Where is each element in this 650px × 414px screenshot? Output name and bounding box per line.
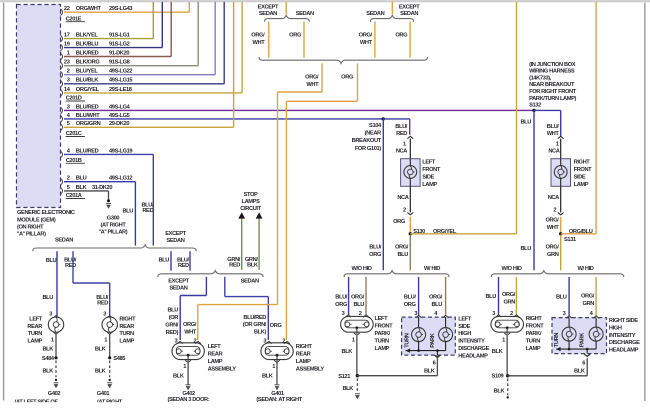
- svg-text:LAMP: LAMP: [422, 182, 437, 188]
- svg-text:LAMP: LAMP: [208, 359, 223, 365]
- svg-text:CIRCUIT: CIRCUIT: [240, 206, 261, 212]
- svg-text:BLK: BLK: [262, 374, 274, 380]
- svg-text:1: 1: [67, 50, 70, 56]
- svg-text:LEFT: LEFT: [422, 159, 436, 165]
- svg-text:49S-LG4: 49S-LG4: [109, 104, 131, 110]
- svg-text:1: 1: [272, 364, 275, 370]
- svg-text:NCA: NCA: [548, 149, 559, 155]
- svg-text:S104: S104: [369, 123, 382, 129]
- svg-text:1: 1: [51, 337, 54, 343]
- svg-text:BLU/BLK: BLU/BLK: [76, 78, 100, 84]
- svg-text:LEFT: LEFT: [29, 317, 43, 323]
- svg-text:RIGHT SIDE: RIGHT SIDE: [609, 318, 638, 324]
- svg-text:ORG: ORG: [395, 33, 408, 39]
- svg-text:EXCEPT: EXCEPT: [399, 5, 420, 11]
- svg-text:SIDE: SIDE: [458, 324, 470, 330]
- svg-text:BLU/: BLU/: [395, 124, 408, 130]
- svg-text:RED): RED): [166, 330, 179, 336]
- svg-text:BLK: BLK: [76, 185, 88, 191]
- svg-text:49S-LG15: 49S-LG15: [109, 78, 132, 84]
- svg-text:1: 1: [403, 141, 406, 147]
- svg-text:ORG/YEL: ORG/YEL: [76, 87, 100, 93]
- svg-text:29S-LE18: 29S-LE18: [109, 87, 132, 93]
- svg-text:BLU/: BLU/: [547, 124, 560, 130]
- svg-text:19: 19: [64, 42, 70, 48]
- svg-text:GRN/: GRN/: [165, 323, 178, 329]
- svg-text:ASSEMBLY: ASSEMBLY: [208, 366, 237, 372]
- svg-text:SEDAN: SEDAN: [296, 11, 314, 17]
- svg-text:RED: RED: [97, 300, 108, 306]
- svg-text:49S-LG5: 49S-LG5: [109, 113, 130, 119]
- svg-text:BLU: BLU: [485, 294, 496, 300]
- svg-text:LAMP: LAMP: [119, 339, 134, 345]
- svg-text:BLK/RED: BLK/RED: [76, 50, 99, 56]
- svg-text:2: 2: [282, 339, 285, 345]
- svg-text:NCA: NCA: [548, 195, 559, 201]
- svg-text:BLK: BLK: [95, 369, 107, 375]
- svg-text:ORG/: ORG/: [429, 294, 443, 300]
- svg-text:BLU: BLU: [42, 295, 53, 301]
- svg-text:ASSEMBLY: ASSEMBLY: [296, 366, 325, 372]
- svg-text:2: 2: [403, 208, 406, 214]
- svg-text:TURN: TURN: [554, 333, 560, 348]
- svg-text:17: 17: [64, 33, 70, 39]
- svg-text:ORG/: ORG/: [581, 293, 595, 299]
- svg-text:ORG/: ORG/: [545, 245, 559, 251]
- svg-text:WHT: WHT: [306, 82, 319, 88]
- svg-text:ORG: ORG: [335, 302, 348, 308]
- svg-text:BLU/RED: BLU/RED: [243, 315, 266, 321]
- svg-text:29S-LG43: 29S-LG43: [109, 6, 132, 12]
- svg-text:S484: S484: [42, 356, 55, 362]
- svg-text:REAR: REAR: [296, 351, 311, 357]
- svg-text:NCA: NCA: [396, 149, 407, 155]
- svg-text:91-DK20: 91-DK20: [109, 50, 129, 56]
- svg-text:RED: RED: [65, 263, 76, 269]
- svg-text:BLK: BLK: [574, 368, 586, 374]
- svg-text:PARK/: PARK/: [526, 331, 542, 337]
- svg-text:TURN: TURN: [28, 331, 43, 337]
- svg-text:BLU/: BLU/: [404, 294, 417, 300]
- svg-text:BLK: BLK: [424, 368, 436, 374]
- svg-text:2: 2: [553, 208, 556, 214]
- svg-text:SEDAN: SEDAN: [241, 278, 259, 284]
- svg-text:ORG/: ORG/: [359, 33, 373, 39]
- svg-text:GRN: GRN: [583, 301, 595, 307]
- svg-text:49S-LG19: 49S-LG19: [109, 148, 132, 154]
- svg-text:3: 3: [263, 339, 266, 345]
- svg-text:BLK: BLK: [42, 369, 54, 375]
- svg-text:LAMP: LAMP: [526, 346, 541, 352]
- svg-text:BLU: BLU: [167, 308, 178, 314]
- svg-text:BLK: BLK: [247, 263, 259, 269]
- svg-text:23: 23: [64, 60, 70, 66]
- svg-text:HIGH: HIGH: [609, 325, 622, 331]
- svg-text:REAR: REAR: [208, 351, 223, 357]
- svg-text:BLK: BLK: [341, 349, 353, 355]
- svg-text:REAR: REAR: [119, 324, 134, 330]
- svg-text:BLK/YEL: BLK/YEL: [76, 33, 99, 39]
- svg-text:SEDAN: SEDAN: [55, 237, 73, 243]
- svg-text:ORG: ORG: [393, 219, 406, 225]
- svg-text:49S-LG22: 49S-LG22: [109, 69, 132, 75]
- svg-text:EXCEPT: EXCEPT: [165, 231, 186, 237]
- svg-text:WHT: WHT: [360, 40, 373, 46]
- svg-text:BLU: BLU: [520, 246, 531, 252]
- svg-text:FRONT: FRONT: [574, 167, 593, 173]
- svg-text:WHT: WHT: [547, 225, 560, 231]
- svg-text:HEADLAMP: HEADLAMP: [609, 348, 639, 354]
- svg-text:SEDAN: SEDAN: [259, 11, 277, 17]
- svg-text:91S-LG8: 91S-LG8: [109, 60, 130, 66]
- svg-text:BLK: BLK: [342, 386, 354, 392]
- svg-text:MODULE (GEM): MODULE (GEM): [17, 217, 56, 223]
- svg-text:LEFT: LEFT: [458, 316, 472, 322]
- svg-text:91S-LG2: 91S-LG2: [109, 42, 130, 48]
- svg-text:W/O HID: W/O HID: [351, 266, 371, 272]
- svg-text:BLK/BLU: BLK/BLU: [76, 42, 99, 48]
- svg-text:LAMP: LAMP: [27, 339, 42, 345]
- svg-text:22: 22: [64, 6, 70, 12]
- svg-text:BLU/YEL: BLU/YEL: [76, 69, 99, 75]
- svg-text:BLU: BLU: [431, 302, 442, 308]
- svg-text:ORG/GRN: ORG/GRN: [76, 121, 101, 127]
- svg-text:BLU: BLU: [353, 302, 364, 308]
- svg-text:BLK: BLK: [95, 347, 107, 353]
- svg-text:TURN: TURN: [526, 339, 541, 345]
- svg-text:BLU/WHT: BLU/WHT: [76, 113, 100, 119]
- svg-text:ORG: ORG: [404, 302, 417, 308]
- svg-text:3: 3: [103, 311, 106, 317]
- svg-text:1: 1: [556, 141, 559, 147]
- svg-text:''A'' PILLAR): ''A'' PILLAR): [17, 232, 46, 238]
- svg-text:DISCHARGE: DISCHARGE: [458, 346, 489, 352]
- svg-text:ORG/: ORG/: [502, 292, 516, 298]
- svg-text:PARK/: PARK/: [375, 331, 391, 337]
- svg-text:3: 3: [175, 339, 178, 345]
- svg-text:WHT: WHT: [184, 329, 197, 335]
- svg-text:SEDAN: SEDAN: [166, 238, 184, 244]
- svg-text:TURN: TURN: [404, 333, 410, 348]
- svg-text:(SEDAN: AT RIGHT: (SEDAN: AT RIGHT: [256, 397, 302, 403]
- svg-text:HIGH: HIGH: [458, 331, 471, 337]
- svg-text:(AT RIGHT: (AT RIGHT: [101, 222, 127, 228]
- svg-text:ORG/: ORG/: [305, 74, 319, 80]
- svg-text:TURN: TURN: [375, 339, 390, 345]
- svg-text:(ON RIGHT: (ON RIGHT: [17, 224, 44, 230]
- svg-text:3: 3: [563, 311, 566, 317]
- svg-text:PARK/TURN LAMP): PARK/TURN LAMP): [529, 96, 576, 102]
- svg-text:BLU: BLU: [46, 258, 57, 264]
- svg-text:NEAR BREAKOUT: NEAR BREAKOUT: [529, 82, 575, 88]
- svg-text:6: 6: [582, 361, 585, 367]
- svg-text:INTENSITY: INTENSITY: [458, 339, 485, 345]
- svg-text:GRN: GRN: [504, 299, 516, 305]
- svg-text:BLK/ORG: BLK/ORG: [76, 60, 101, 66]
- svg-text:ORG: ORG: [289, 33, 302, 39]
- svg-text:1: 1: [502, 337, 505, 343]
- svg-text:FOR RIGHT FRONT: FOR RIGHT FRONT: [529, 89, 577, 95]
- svg-text:(OR: (OR: [169, 315, 179, 321]
- svg-text:TURN: TURN: [119, 331, 134, 337]
- svg-text:NCA: NCA: [397, 195, 408, 201]
- svg-text:EXCEPT: EXCEPT: [168, 278, 189, 284]
- svg-text:6: 6: [433, 360, 436, 366]
- svg-text:RED: RED: [178, 263, 189, 269]
- svg-text:LAMP: LAMP: [375, 346, 390, 352]
- svg-text:SIDE: SIDE: [422, 174, 434, 180]
- svg-text:LAMP: LAMP: [296, 359, 311, 365]
- svg-text:STOP: STOP: [244, 192, 258, 198]
- svg-text:(SEDAN 3 DOOR:: (SEDAN 3 DOOR:: [168, 397, 210, 403]
- svg-text:SEDAN: SEDAN: [169, 285, 187, 291]
- svg-text:PARK: PARK: [579, 332, 585, 347]
- svg-text:BLU: BLU: [520, 120, 531, 126]
- svg-text:W/O HID: W/O HID: [501, 266, 521, 272]
- svg-text:1: 1: [104, 337, 107, 343]
- svg-text:ORG/: ORG/: [395, 245, 409, 251]
- svg-text:LEFT: LEFT: [375, 316, 389, 322]
- svg-text:G401: G401: [97, 391, 110, 397]
- svg-text:1: 1: [183, 364, 186, 370]
- svg-text:49S-LG12: 49S-LG12: [109, 176, 132, 182]
- svg-text:(NEAR: (NEAR: [365, 131, 381, 137]
- svg-text:HEADLAMP: HEADLAMP: [458, 353, 488, 359]
- svg-text:DISCHARGE: DISCHARGE: [609, 340, 640, 346]
- svg-text:3: 3: [49, 311, 52, 317]
- svg-text:2: 2: [194, 339, 197, 345]
- svg-text:BLU/RED: BLU/RED: [76, 148, 99, 154]
- svg-text:ORG/: ORG/: [183, 322, 197, 328]
- svg-text:REAR: REAR: [27, 324, 42, 330]
- svg-text:PARK: PARK: [430, 332, 436, 347]
- svg-text:ORG: ORG: [369, 252, 382, 258]
- svg-text:GENERIC ELECTRONIC: GENERIC ELECTRONIC: [17, 210, 75, 216]
- svg-text:LAMPS: LAMPS: [241, 199, 260, 205]
- svg-text:WIRING HARNESS: WIRING HARNESS: [529, 69, 575, 75]
- svg-text:2: 2: [67, 176, 70, 182]
- svg-text:FRONT: FRONT: [526, 324, 545, 330]
- svg-text:W/ HID: W/ HID: [424, 266, 440, 272]
- svg-text:RIGHT: RIGHT: [296, 344, 313, 350]
- svg-text:RED: RED: [396, 131, 407, 137]
- svg-text:RIGHT: RIGHT: [574, 159, 591, 165]
- svg-text:BLK: BLK: [173, 374, 185, 380]
- svg-text:G402: G402: [182, 391, 195, 397]
- svg-text:BLK: BLK: [42, 347, 54, 353]
- svg-text:BLK: BLK: [494, 388, 506, 394]
- svg-text:WHT: WHT: [547, 131, 560, 137]
- svg-text:RED: RED: [229, 263, 240, 269]
- svg-text:S109: S109: [492, 374, 504, 380]
- svg-text:S132: S132: [529, 103, 541, 109]
- svg-text:SIDE: SIDE: [574, 174, 586, 180]
- svg-text:(OR GRN/: (OR GRN/: [243, 322, 267, 328]
- svg-text:RIGHT: RIGHT: [526, 316, 543, 322]
- svg-text:ORG/: ORG/: [251, 33, 265, 39]
- svg-text:29-DK20: 29-DK20: [109, 121, 129, 127]
- svg-text:FRONT: FRONT: [422, 167, 441, 173]
- svg-text:G401: G401: [271, 391, 284, 397]
- svg-text:LAMP: LAMP: [574, 182, 589, 188]
- svg-text:3: 3: [492, 311, 495, 317]
- svg-text:BREAKOUT: BREAKOUT: [352, 138, 382, 144]
- svg-text:BLU: BLU: [122, 209, 133, 215]
- svg-text:31-DK20: 31-DK20: [92, 185, 112, 191]
- svg-text:EXCEPT: EXCEPT: [258, 5, 279, 11]
- svg-text:S121: S121: [338, 374, 350, 380]
- svg-text:3: 3: [67, 78, 70, 84]
- svg-text:BLU: BLU: [158, 257, 169, 263]
- svg-text:5: 5: [67, 185, 70, 191]
- svg-text:BLK: BLK: [492, 349, 504, 355]
- svg-text:ORG/: ORG/: [351, 294, 365, 300]
- svg-text:BLK): BLK): [254, 330, 267, 336]
- svg-text:ORG/WHT: ORG/WHT: [76, 6, 102, 12]
- svg-text:ORG: ORG: [270, 323, 283, 329]
- svg-text:BLU: BLU: [397, 252, 408, 258]
- svg-text:3: 3: [414, 311, 417, 317]
- svg-text:ORG/: ORG/: [545, 218, 559, 224]
- svg-text:FOR G101): FOR G101): [355, 146, 381, 152]
- svg-text:GRN: GRN: [547, 252, 559, 258]
- svg-text:3: 3: [342, 311, 345, 317]
- svg-text:SEDAN: SEDAN: [400, 11, 418, 17]
- svg-text:BLU: BLU: [556, 294, 567, 300]
- svg-text:S485: S485: [113, 356, 125, 362]
- svg-text:G402: G402: [48, 391, 61, 397]
- svg-text:1: 1: [352, 337, 355, 343]
- svg-text:W/ HID: W/ HID: [577, 266, 593, 272]
- svg-text:(14K733),: (14K733),: [529, 75, 552, 81]
- svg-text:2: 2: [67, 69, 70, 75]
- svg-text:WHT: WHT: [252, 40, 265, 46]
- svg-text:BLU/: BLU/: [335, 294, 348, 300]
- svg-text:RIGHT: RIGHT: [119, 317, 136, 323]
- svg-text:''A'' PILLAR): ''A'' PILLAR): [99, 229, 128, 235]
- svg-text:G300: G300: [107, 215, 120, 221]
- svg-text:S131: S131: [564, 237, 576, 243]
- svg-text:LEFT: LEFT: [208, 344, 222, 350]
- svg-text:3: 3: [67, 104, 70, 110]
- svg-text:INTENSITY: INTENSITY: [609, 333, 636, 339]
- svg-text:(IN JUNCTION BOX: (IN JUNCTION BOX: [529, 62, 576, 68]
- svg-text:5: 5: [67, 121, 70, 127]
- svg-text:BLU: BLU: [76, 176, 87, 182]
- svg-text:RED: RED: [142, 208, 153, 214]
- svg-text:SEDAN: SEDAN: [366, 11, 384, 17]
- svg-text:FRONT: FRONT: [375, 324, 394, 330]
- svg-text:BLU/: BLU/: [369, 245, 382, 251]
- svg-text:BLU/RED: BLU/RED: [76, 104, 99, 110]
- svg-text:ORG: ORG: [341, 74, 354, 80]
- svg-text:91S-LG1: 91S-LG1: [109, 33, 130, 39]
